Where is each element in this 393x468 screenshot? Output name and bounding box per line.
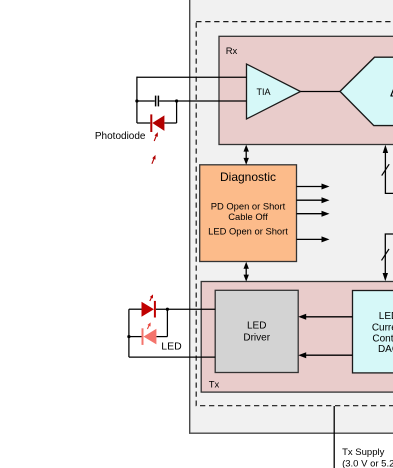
node junction left LED vertical <box>127 335 130 338</box>
wire LED left vertical <box>128 309 130 357</box>
svg-text:PD Open or Short: PD Open or Short <box>211 201 286 212</box>
capacitor C1 <box>156 96 159 107</box>
bus slash upper <box>382 164 390 175</box>
svg-text:Tx Supply: Tx Supply <box>342 447 384 458</box>
photodiode light arrow 1 <box>153 131 160 141</box>
wire LED cathode return (bottom) <box>129 356 215 358</box>
LED D3 light arrow <box>146 322 152 330</box>
node junction right of capacitor <box>175 99 178 102</box>
Diagnostic block <box>200 165 297 262</box>
photodiode light arrow 2 <box>150 154 157 164</box>
wire LED lower branch <box>129 309 168 336</box>
wire photodiode loop right vertical <box>176 101 178 123</box>
LED Driver block <box>215 290 298 372</box>
outer device boundary box <box>190 0 393 433</box>
svg-text:Photodiode: Photodiode <box>95 131 146 142</box>
wire photodiode branch <box>137 122 177 124</box>
svg-text:LED: LED <box>379 311 393 322</box>
node junction top LED wire <box>166 308 169 311</box>
wire LED anode (top) <box>129 308 215 310</box>
Tx supply wire <box>333 406 335 468</box>
LED D2 (dark red) <box>142 301 156 318</box>
wire TIA top input <box>137 76 247 78</box>
svg-text:TIA: TIA <box>257 87 271 97</box>
Tx block <box>201 282 393 393</box>
op-amp U1 TIA <box>247 64 301 119</box>
svg-text:DAC: DAC <box>378 344 393 355</box>
bus wire to Tx with arrow <box>383 234 393 281</box>
Rx block <box>219 36 393 144</box>
diagnostic output arrow 4 <box>297 236 330 242</box>
diagnostic output arrow 2 <box>297 197 330 203</box>
svg-text:LED: LED <box>247 321 266 332</box>
svg-text:Rx: Rx <box>226 46 238 57</box>
dashed IC boundary <box>196 22 393 406</box>
svg-text:Current: Current <box>372 323 393 334</box>
label Tx Supply <box>342 447 393 468</box>
label LED <box>161 340 182 352</box>
photodiode D1 <box>150 114 164 132</box>
svg-text:Diagnostic: Diagnostic <box>220 170 276 184</box>
svg-text:LED Open or Short: LED Open or Short <box>208 225 288 236</box>
node junction left of capacitor <box>135 99 138 102</box>
double arrow Rx to Diagnostic <box>244 145 249 165</box>
bus wire to Rx with arrow <box>383 145 393 194</box>
wire TIA output to delta block <box>301 91 341 93</box>
diagnostic output arrow 1 <box>297 184 330 190</box>
wire TIA bottom input <box>137 100 247 102</box>
wire photodiode loop left vertical <box>136 77 138 123</box>
DAC to driver arrow 2 <box>298 352 352 358</box>
limiting amplifier U2 (delta block) <box>340 57 393 125</box>
LED D2 light arrow <box>148 294 154 302</box>
label Photodiode <box>95 131 146 142</box>
svg-text:Driver: Driver <box>243 333 270 344</box>
svg-text:LED: LED <box>161 340 182 352</box>
bus slash lower <box>382 249 390 260</box>
diagnostic output arrow 3 <box>297 211 330 217</box>
DAC to driver arrow 1 <box>298 314 352 320</box>
double arrow Diagnostic to Tx <box>244 262 249 282</box>
svg-text:(3.0 V or 5.25 V): (3.0 V or 5.25 V) <box>342 458 393 468</box>
LED D3 (light red) <box>142 328 157 345</box>
svg-text:Tx: Tx <box>209 380 220 391</box>
LED Current Control DAC block <box>353 291 393 373</box>
svg-text:Cable Off: Cable Off <box>228 211 268 222</box>
